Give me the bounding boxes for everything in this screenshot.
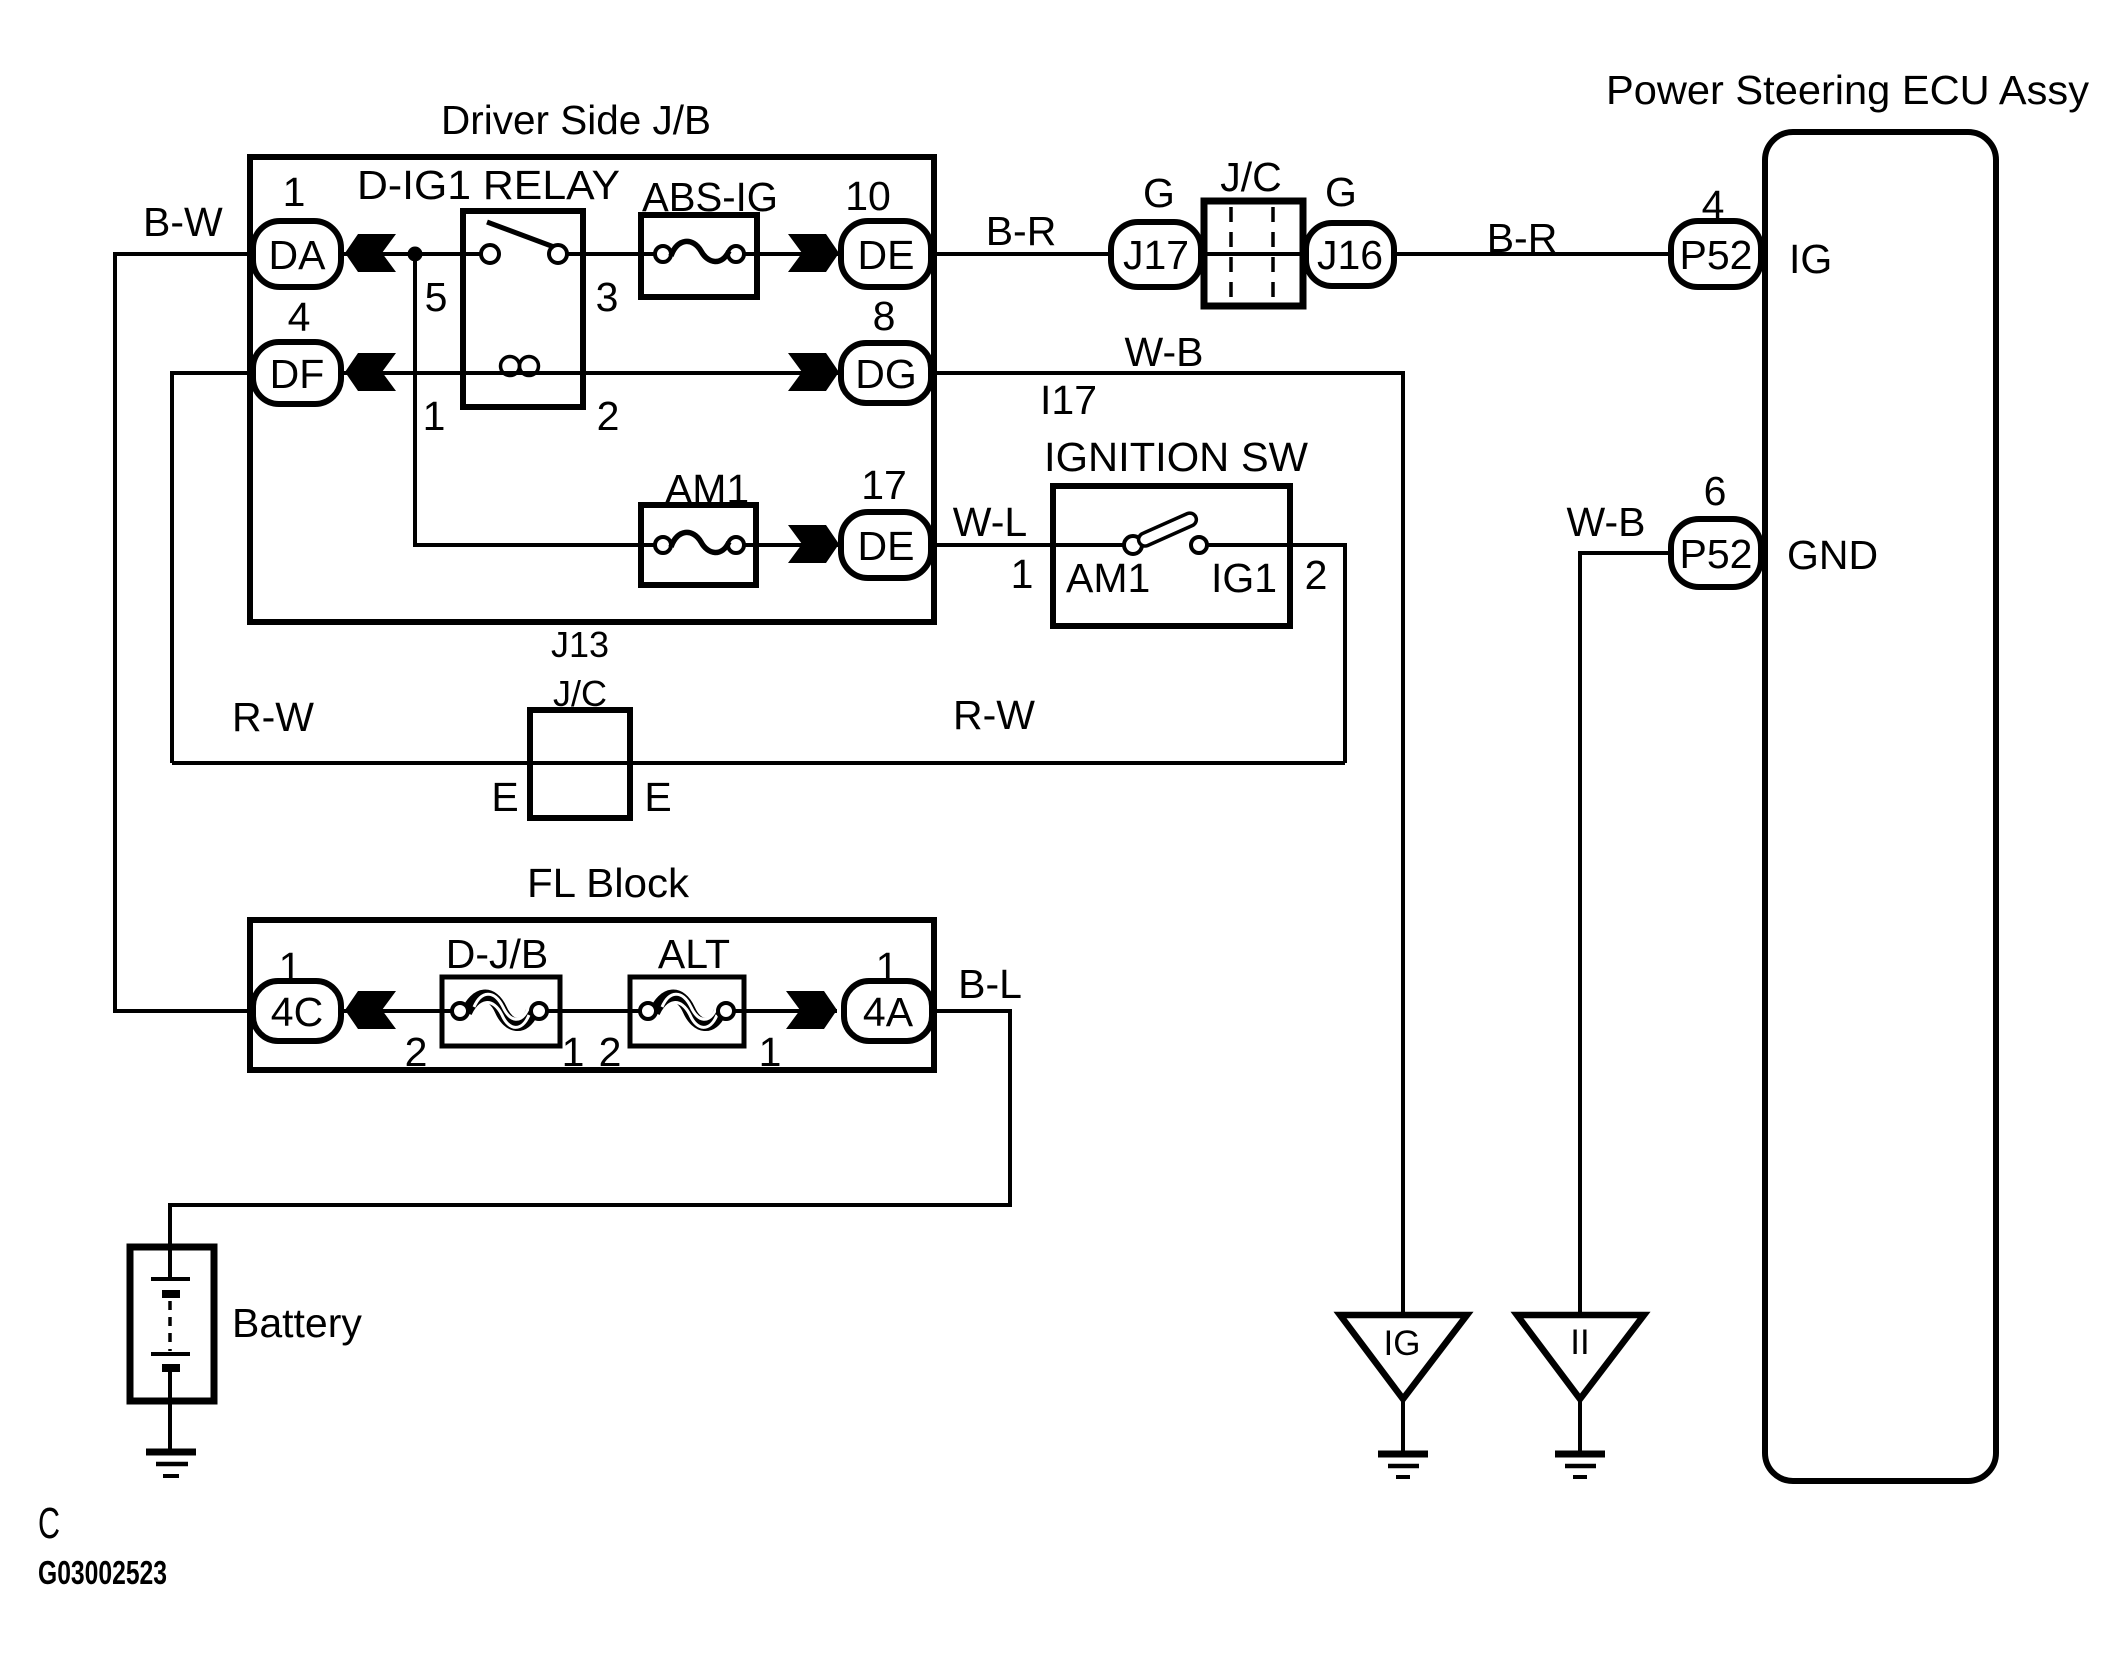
fusible link ALT box xyxy=(630,977,744,1046)
arrow into DE pin10 xyxy=(788,234,839,272)
ground triangle IG xyxy=(1340,1315,1467,1399)
arrow into 4C xyxy=(345,991,396,1029)
svg-text:1: 1 xyxy=(759,1029,782,1075)
svg-text:B-L: B-L xyxy=(958,961,1022,1007)
arrow into DF xyxy=(345,353,396,391)
wire ALT to 4A xyxy=(734,1009,837,1013)
relay coil xyxy=(501,357,520,376)
svg-text:2: 2 xyxy=(405,1029,428,1075)
wire fuse AM1 to DE17 xyxy=(744,543,839,547)
fusible link ALT right terminal xyxy=(718,1003,734,1019)
svg-text:8: 8 xyxy=(873,293,896,339)
J/C bus bar dashed line 2 xyxy=(1271,207,1275,300)
fusible link D-J/B left terminal xyxy=(452,1003,468,1019)
ground symbol IG xyxy=(1378,1454,1428,1477)
wire R-W horizontal xyxy=(172,761,1345,765)
svg-text:B-R: B-R xyxy=(986,208,1057,254)
svg-text:D-IG1 RELAY: D-IG1 RELAY xyxy=(357,162,620,208)
connector DG pin8 xyxy=(841,343,931,403)
wire J16 to P52 B-R xyxy=(1397,252,1668,256)
svg-text:GND: GND xyxy=(1787,532,1878,578)
svg-text:DG: DG xyxy=(855,351,917,397)
wire DA to relay contact xyxy=(344,252,482,256)
arrow into 4A xyxy=(786,991,837,1029)
wire B-L 4A to battery xyxy=(170,1011,1010,1247)
wire relay to DG xyxy=(583,371,839,375)
wire B-W net: DA to 4C via left side xyxy=(115,254,250,1011)
svg-text:Driver Side J/B: Driver Side J/B xyxy=(441,97,711,143)
fuse ABS-IG right terminal xyxy=(728,246,744,262)
svg-text:AM1: AM1 xyxy=(1066,555,1150,601)
svg-text:10: 10 xyxy=(845,173,891,219)
ground symbol battery xyxy=(146,1452,196,1476)
svg-text:6: 6 xyxy=(1704,468,1727,514)
connector DE pin10 xyxy=(841,221,931,287)
wire between fusible links xyxy=(547,1009,640,1013)
svg-text:Battery: Battery xyxy=(232,1300,362,1346)
wire W-B P52 to II ground xyxy=(1580,553,1668,1315)
svg-text:C: C xyxy=(38,1499,60,1548)
ground symbol II xyxy=(1555,1454,1605,1477)
fuse AM1 left terminal xyxy=(655,537,671,553)
fuse AM1 element xyxy=(671,532,729,552)
fuse AM1 right terminal xyxy=(728,537,744,553)
svg-text:IG: IG xyxy=(1789,236,1832,282)
fuse AM1 box xyxy=(641,505,756,585)
svg-text:1: 1 xyxy=(423,393,446,439)
svg-text:Power Steering ECU Assy: Power Steering ECU Assy xyxy=(1606,67,2090,113)
battery top lead xyxy=(168,1247,172,1279)
svg-text:DE: DE xyxy=(858,232,915,278)
svg-text:1: 1 xyxy=(283,169,306,215)
wire through J/C xyxy=(1204,252,1303,256)
relay switch blade xyxy=(487,222,554,247)
wire 4C to D-J/B link xyxy=(344,1009,452,1013)
ECU block Power Steering ECU Assy xyxy=(1765,132,1996,1481)
svg-text:B-W: B-W xyxy=(143,199,223,245)
svg-text:J17: J17 xyxy=(1123,232,1189,278)
svg-text:IG: IG xyxy=(1384,1324,1421,1363)
fusible link D-J/B right terminal xyxy=(531,1003,547,1019)
svg-text:1: 1 xyxy=(1011,551,1034,597)
connector DA xyxy=(253,221,341,287)
fusible link D-J/B box xyxy=(442,977,560,1046)
wire fuse to DE xyxy=(744,252,839,256)
svg-text:17: 17 xyxy=(861,462,907,508)
J/C bus bar dashed line 1 xyxy=(1229,207,1233,300)
wire junction down to AM1 fuse row xyxy=(415,254,655,545)
connector J17 xyxy=(1111,222,1201,287)
junction node dot xyxy=(408,247,423,262)
svg-text:DF: DF xyxy=(270,351,325,397)
FL Block box xyxy=(250,920,934,1070)
svg-text:R-W: R-W xyxy=(232,694,314,740)
svg-text:W-L: W-L xyxy=(953,499,1027,545)
ground triangle II xyxy=(1517,1315,1644,1399)
arrow into DG xyxy=(788,353,839,391)
relay contact circle pin3 xyxy=(549,245,567,263)
svg-text:ALT: ALT xyxy=(658,931,730,977)
ignition contact AM1 circle xyxy=(1124,536,1142,554)
svg-text:IGNITION SW: IGNITION SW xyxy=(1044,434,1308,480)
connector J16 xyxy=(1306,223,1394,286)
wire relay to fuse xyxy=(567,252,655,256)
wire W-L DE17 to ignition switch xyxy=(934,543,1124,547)
svg-text:2: 2 xyxy=(597,393,620,439)
relay contact circle pin5 xyxy=(481,245,499,263)
battery plate negative bottom xyxy=(162,1364,180,1372)
connector DF xyxy=(253,342,341,404)
svg-text:G: G xyxy=(1325,169,1357,215)
fuse ABS-IG element xyxy=(671,241,729,261)
connector 4C xyxy=(253,981,341,1041)
ignition switch I17 box xyxy=(1053,486,1290,626)
svg-text:D-J/B: D-J/B xyxy=(446,931,549,977)
ignition key lever xyxy=(1136,511,1198,548)
wire IG triangle to ground xyxy=(1401,1399,1405,1451)
svg-text:II: II xyxy=(1570,1323,1589,1362)
svg-text:DA: DA xyxy=(269,232,327,278)
battery bottom lead to ground xyxy=(168,1371,172,1451)
svg-text:4A: 4A xyxy=(863,989,914,1035)
svg-text:4C: 4C xyxy=(271,989,323,1035)
svg-text:FL Block: FL Block xyxy=(527,860,690,906)
svg-text:W-B: W-B xyxy=(1567,499,1646,545)
fusible link ALT element xyxy=(655,994,720,1027)
wire DE to J17 B-R xyxy=(934,252,1108,256)
svg-text:J16: J16 xyxy=(1317,232,1383,278)
junction connector J13 box xyxy=(530,710,630,818)
fusible link ALT left terminal xyxy=(640,1003,656,1019)
svg-text:G03002523: G03002523 xyxy=(38,1554,167,1591)
fusible link D-J/B element xyxy=(467,994,532,1027)
svg-text:DE: DE xyxy=(858,523,915,569)
arrow into DA xyxy=(345,234,396,272)
battery dashed middle xyxy=(168,1301,172,1351)
fuse ABS-IG box xyxy=(641,215,757,297)
svg-text:J13: J13 xyxy=(551,624,609,665)
wire DF down to R-W row xyxy=(172,373,250,763)
svg-text:3: 3 xyxy=(596,274,619,320)
battery plate positive bottom xyxy=(151,1352,190,1356)
battery plate negative top xyxy=(162,1290,180,1298)
svg-text:I17: I17 xyxy=(1040,377,1097,423)
wire ignition pin2 down to R-W row xyxy=(1208,545,1345,763)
ignition contact IG1 circle xyxy=(1191,537,1207,553)
wire II triangle to ground xyxy=(1578,1399,1582,1451)
svg-text:P52: P52 xyxy=(1680,531,1753,577)
connector P52 pin6 xyxy=(1671,519,1761,587)
svg-text:R-W: R-W xyxy=(953,692,1035,738)
battery box xyxy=(130,1247,214,1401)
wire through relay coil row xyxy=(344,371,583,375)
svg-text:W-B: W-B xyxy=(1125,329,1204,375)
junction connector J/C box xyxy=(1204,201,1303,306)
svg-text:P52: P52 xyxy=(1680,232,1753,278)
svg-text:G: G xyxy=(1143,170,1175,216)
svg-text:E: E xyxy=(644,774,671,820)
svg-text:5: 5 xyxy=(425,274,448,320)
svg-text:2: 2 xyxy=(1305,552,1328,598)
wire W-B from DG to IG ground xyxy=(934,373,1403,1315)
svg-text:J/C: J/C xyxy=(1220,154,1282,200)
junction block Driver Side J/B box xyxy=(250,157,934,622)
svg-text:4: 4 xyxy=(288,294,311,340)
connector P52 pin4 xyxy=(1671,221,1761,287)
svg-text:B-R: B-R xyxy=(1487,215,1558,261)
svg-text:2: 2 xyxy=(599,1029,622,1075)
svg-text:E: E xyxy=(491,774,518,820)
relay D-IG1 box xyxy=(463,211,583,407)
arrow into DE pin17 xyxy=(788,525,839,563)
svg-text:1: 1 xyxy=(562,1029,585,1075)
connector 4A xyxy=(844,981,932,1041)
battery plate positive top xyxy=(151,1277,190,1281)
connector DE pin17 xyxy=(841,512,931,578)
svg-text:IG1: IG1 xyxy=(1211,555,1277,601)
fuse ABS-IG left terminal xyxy=(655,246,671,262)
